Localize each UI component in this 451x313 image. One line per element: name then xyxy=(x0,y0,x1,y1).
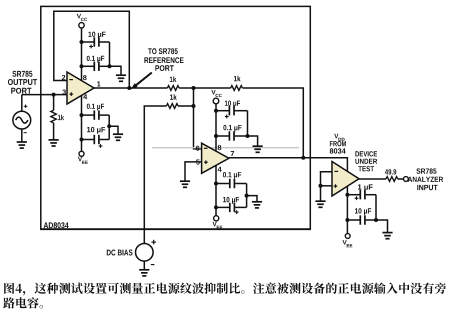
ground DC bias xyxy=(139,269,149,271)
wire C1 to rail xyxy=(100,41,110,43)
wire R4 to DC bias xyxy=(144,106,166,244)
Vcc terminal op2 xyxy=(213,98,219,104)
label R1 1k xyxy=(58,115,64,121)
junction rail C2 xyxy=(108,64,112,68)
resistor R3 1k xyxy=(231,86,243,91)
label C5 plus xyxy=(225,116,229,118)
right rail C1-C2 xyxy=(109,42,111,66)
label C4 10uF xyxy=(87,127,105,134)
node output U1a xyxy=(127,86,131,90)
source minus xyxy=(24,132,27,134)
ground op1 top xyxy=(116,74,126,76)
wire U2 output xyxy=(359,178,386,180)
wire to C5 xyxy=(216,110,229,112)
pin2 label xyxy=(62,75,66,80)
wire source stem xyxy=(21,95,23,112)
wire R3 to corner xyxy=(242,88,303,158)
label R4 1k xyxy=(170,94,177,100)
label C2 0.1uF xyxy=(87,56,105,63)
wire U2 inputs loop xyxy=(321,172,333,202)
pin8 label xyxy=(83,75,87,80)
label DEVICE UNDER TEST xyxy=(355,151,377,156)
junction Vcc2 cap5 xyxy=(214,109,218,113)
label C4 plus xyxy=(99,145,103,147)
label C9 plus xyxy=(355,197,359,199)
source plus xyxy=(24,105,28,107)
wire C5 to rail xyxy=(235,110,248,112)
wire Vcc rail op2 xyxy=(215,104,217,151)
wire to C10 xyxy=(347,219,359,221)
junction U2 cap9 xyxy=(345,193,349,197)
ground R1 xyxy=(49,139,59,141)
junction rail mid op2 xyxy=(245,194,249,198)
label Vcc op2 xyxy=(211,90,215,94)
junction U2 inputs xyxy=(319,184,323,188)
label Vee op1 xyxy=(78,157,82,161)
label Vee op2 xyxy=(213,222,217,226)
wire C6 to rail xyxy=(235,135,248,137)
right rail C9-C10 xyxy=(375,195,377,220)
capacitor C2 0.1uF xyxy=(93,62,95,71)
wire C9 to rail xyxy=(366,194,376,196)
wire C2 to rail xyxy=(100,65,110,67)
AD8034 box bottom edge xyxy=(40,228,311,230)
Vee terminal DUT xyxy=(345,234,350,239)
feedback wire U1a xyxy=(54,11,130,88)
terminal analyzer xyxy=(404,177,409,182)
op-amp U2 DUT xyxy=(332,162,359,197)
U1a plus sign xyxy=(70,93,74,95)
right rail C7-C8 xyxy=(246,184,248,208)
gray divider line xyxy=(152,147,299,149)
ground op1 bottom xyxy=(113,133,123,135)
wire to C1 xyxy=(82,41,94,43)
AD8034 block outline xyxy=(41,6,311,229)
wire to C6 xyxy=(216,135,229,137)
DC bias minus xyxy=(151,264,155,266)
wire rail to ground op2 bottom xyxy=(247,196,257,202)
Vee terminal op2 xyxy=(214,216,219,221)
right rail C3-C4 xyxy=(108,115,110,139)
junction Vee2 cap8 xyxy=(214,205,218,209)
wire rail to ground op1 top xyxy=(110,66,122,75)
label C6 0.1uF xyxy=(223,125,241,132)
junction Vee2 cap7 xyxy=(214,182,218,186)
label Vdd FROM 8034 xyxy=(334,134,338,138)
U2 minus sign xyxy=(335,170,339,172)
wire rail to ground op1 bottom xyxy=(109,126,118,134)
label C8 plus xyxy=(235,211,239,213)
pin4 label U1b xyxy=(218,167,222,172)
wire rail to ground op2 top xyxy=(248,136,258,146)
wire rail to ground DUT xyxy=(376,220,388,233)
ground source xyxy=(17,141,27,143)
wire to C9 xyxy=(347,194,359,196)
junction Vcc cap1 xyxy=(80,40,84,44)
resistor R2 1k xyxy=(167,86,179,91)
wire R2 to node xyxy=(179,87,231,89)
junction row2 xyxy=(192,104,196,108)
label C1 10uF xyxy=(88,32,105,39)
DC bias plus xyxy=(151,241,156,243)
junction rail C6 xyxy=(246,134,250,138)
ground U1b input xyxy=(180,180,190,182)
capacitor C6 0.1uF xyxy=(228,131,230,140)
label C10 10uF xyxy=(355,208,371,215)
wire C4 to rail xyxy=(100,139,110,141)
capacitor C9 1uF xyxy=(359,190,361,199)
capacitor C4 10uF xyxy=(93,135,95,144)
wire U1b out to DUT supply xyxy=(303,158,347,172)
capacitor C10 10uF xyxy=(359,215,361,224)
wire to resistor R1 xyxy=(53,95,55,111)
arrow to reference node xyxy=(136,73,152,86)
ground U2 inputs xyxy=(315,200,325,202)
wire U1a output xyxy=(94,87,167,89)
U1b plus sign xyxy=(204,161,208,163)
op-amp U1b AD8034 xyxy=(202,143,229,173)
pin3 label xyxy=(62,90,66,95)
junction rail mid op1 xyxy=(107,124,111,128)
pin5 label xyxy=(196,160,200,165)
label C1 plus xyxy=(89,46,93,48)
wire R5 to terminal xyxy=(398,178,404,180)
pin7 label U1b xyxy=(231,151,234,156)
wire U2 Vminus stub xyxy=(346,186,348,233)
op-amp U1a AD8034 xyxy=(67,72,94,104)
wire C10 to rail xyxy=(366,219,376,221)
wire to C3 xyxy=(82,114,94,116)
Vee terminal op1 xyxy=(79,151,84,156)
junction U2 cap10 xyxy=(345,218,349,222)
source V1 sine generator xyxy=(13,111,31,129)
wire node down to U1b xyxy=(194,88,202,149)
label R5 49.9 xyxy=(385,169,396,174)
capacitor C7 0.1uF xyxy=(229,179,231,188)
wire R4 right xyxy=(178,105,193,107)
capacitor C1 10uF xyxy=(93,37,95,46)
label C5 10uF xyxy=(225,101,240,108)
ground op2 top xyxy=(253,145,263,147)
label C7 0.1uF xyxy=(223,172,241,179)
resistor R1 1k shunt xyxy=(51,110,56,123)
caption line 1 xyxy=(4,282,446,295)
ground op2 bottom xyxy=(252,201,262,203)
junction mid node xyxy=(192,86,196,90)
capacitor C8 10uF xyxy=(229,203,231,212)
wire U1b output xyxy=(229,157,303,159)
pin1 label xyxy=(97,81,100,86)
capacitor C3 0.1uF xyxy=(93,110,95,119)
wire source to ground xyxy=(21,129,23,142)
label SR785 ANALYZER INPUT xyxy=(416,168,436,173)
U2 plus sign xyxy=(334,185,338,187)
junction Vcc cap2 xyxy=(80,64,84,68)
resistor R5 49.9 xyxy=(386,177,398,182)
U1b minus sign xyxy=(204,147,208,149)
wire source to opamp1 +input xyxy=(22,94,67,96)
U1a minus sign xyxy=(69,79,73,81)
junction node input xyxy=(52,93,56,97)
label R2 1k xyxy=(170,77,177,83)
junction rail C10 xyxy=(374,218,378,222)
Vcc terminal op1 xyxy=(79,23,84,28)
ground DUT xyxy=(382,232,392,234)
caption line 2 xyxy=(3,297,43,308)
pin8 label U1b xyxy=(218,145,222,150)
wire C7 to rail xyxy=(235,183,247,185)
label DC BIAS xyxy=(107,250,133,256)
wire DC bias to ground xyxy=(143,261,145,270)
wire R1 to ground xyxy=(53,123,55,140)
wire Vee rail op2 xyxy=(215,165,217,215)
pin6 label xyxy=(196,146,199,151)
wire Vee rail op1 xyxy=(81,95,83,151)
junction U1b out corner xyxy=(301,156,305,160)
label C9 1uF xyxy=(358,184,373,191)
junction Vee cap3 xyxy=(80,113,84,117)
wire to C2 xyxy=(82,65,94,67)
right rail C5-C6 xyxy=(247,111,249,136)
wire U1b pin5 to ground xyxy=(185,162,202,181)
resistor R4 1k xyxy=(166,104,178,109)
wire Vcc rail op1 xyxy=(81,28,83,81)
label AD8034 xyxy=(44,222,69,228)
wire C3 to rail xyxy=(100,114,110,116)
label R3 1k xyxy=(234,76,241,82)
pin4 label xyxy=(83,94,87,99)
label SR785 OUTPUT PORT xyxy=(12,71,32,77)
label Vcc op1 xyxy=(77,14,81,18)
source V2 DC bias xyxy=(136,244,154,262)
wire to C4 xyxy=(82,139,94,141)
label C8 10uF xyxy=(223,197,239,204)
wire C8 to rail xyxy=(235,206,247,208)
capacitor C5 10uF xyxy=(228,106,230,115)
junction Vee cap4 xyxy=(80,138,84,142)
label C3 0.1uF xyxy=(87,104,104,111)
wire to C7 xyxy=(216,183,229,185)
junction Vcc2 cap6 xyxy=(214,134,218,138)
label TO SR785 REFERENCE PORT xyxy=(148,48,178,54)
label Vee DUT xyxy=(343,240,347,244)
wire to C8 xyxy=(216,206,229,208)
